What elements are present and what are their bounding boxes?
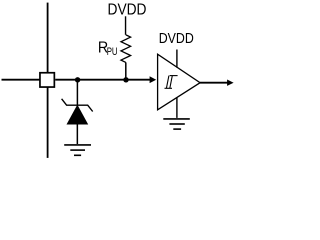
hysteresis symbol: bottom bar xyxy=(165,87,173,89)
wire: buffer bottom edge to ground xyxy=(176,97,178,118)
wire: DVDD stub to resistor top xyxy=(125,16,127,35)
output arrowhead xyxy=(227,80,234,86)
wire: resistor bottom to input net xyxy=(125,62,127,79)
ground (diode) line 3 xyxy=(74,154,81,156)
I/O pad square xyxy=(40,73,54,87)
junction dot: ESD diode branch xyxy=(75,77,80,82)
junction dot: pull-up resistor branch xyxy=(123,77,128,82)
ground (buffer) line 1 xyxy=(163,118,190,120)
wire: node to ESD diode cathode xyxy=(76,80,78,106)
ground (buffer) line 3 xyxy=(173,128,181,130)
ground (diode) line 1 xyxy=(64,144,91,146)
svg-text:DVDD: DVDD xyxy=(159,30,194,46)
hysteresis symbol: top bar xyxy=(170,75,178,77)
wire: DVDD stub to buffer top edge xyxy=(176,50,178,68)
ESD zener diode: cathode bar with bent ends xyxy=(62,99,93,112)
ground (diode) line 2 xyxy=(70,149,85,151)
resistor R_PU zigzag xyxy=(121,35,131,63)
ESD zener diode: anode triangle (filled) xyxy=(67,105,88,124)
schmitt-trigger input buffer triangle xyxy=(158,54,201,110)
svg-text:PU: PU xyxy=(107,46,118,57)
wire: pad to buffer input net xyxy=(55,79,151,81)
wire: left horizontal lead into pad xyxy=(2,79,40,81)
wire: buffer output xyxy=(200,82,228,84)
wire: diode anode to ground xyxy=(76,124,78,144)
svg-text:DVDD: DVDD xyxy=(108,2,147,19)
ground (buffer) line 2 xyxy=(169,123,184,125)
input arrowhead into buffer xyxy=(150,76,157,83)
hysteresis symbol: right slant xyxy=(170,76,173,89)
hysteresis symbol: left slant xyxy=(166,76,169,89)
wire: vertical above pad xyxy=(47,3,49,73)
wire: vertical below pad xyxy=(47,87,49,158)
